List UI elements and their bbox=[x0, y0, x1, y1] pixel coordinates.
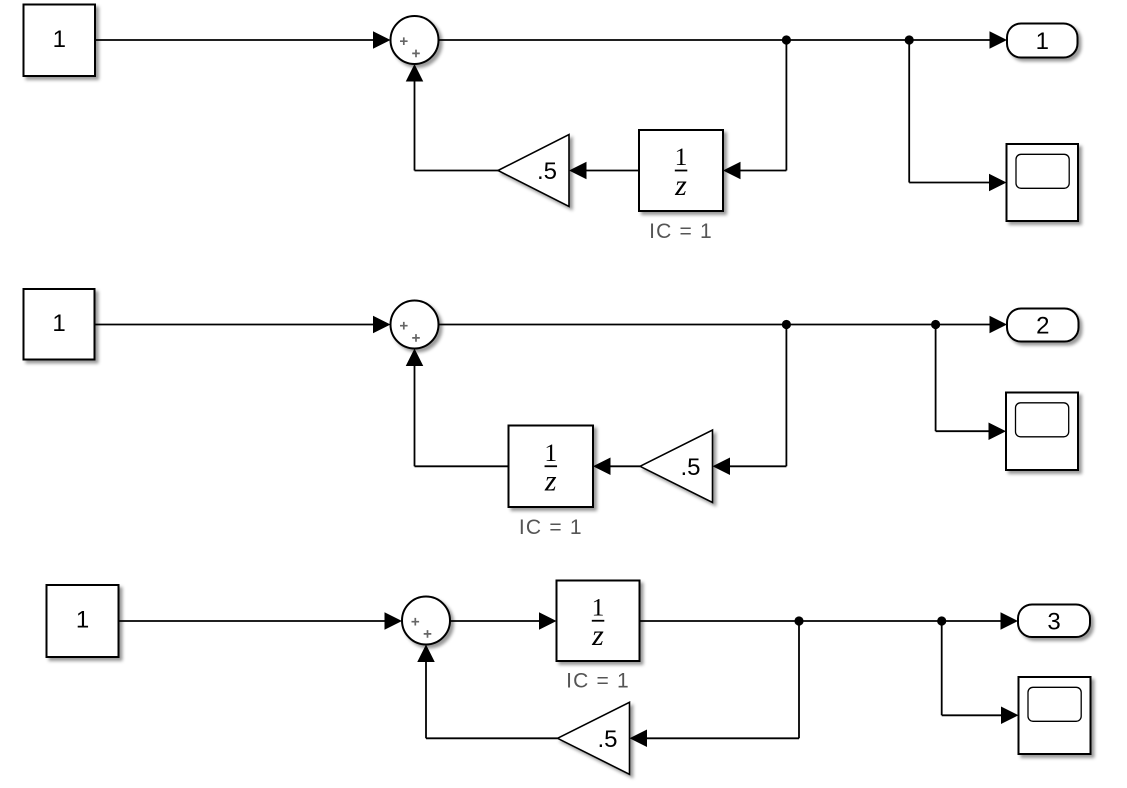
unit delay block Unit Delay1 (1/z) bbox=[639, 130, 723, 211]
svg-text:IC = 1: IC = 1 bbox=[519, 516, 583, 539]
label IC = 1 under Unit Delay1 bbox=[649, 220, 713, 243]
svg-text:1: 1 bbox=[53, 26, 66, 53]
constant block Constant1 value 1 bbox=[24, 5, 96, 77]
wire Unit Delay1 to Gain1 bbox=[569, 162, 639, 180]
svg-text:.5: .5 bbox=[597, 726, 617, 753]
wire Gain1 to Sum1 bottom input bbox=[406, 64, 498, 171]
wire J3a down to Gain3 input bbox=[630, 621, 800, 747]
svg-text:2: 2 bbox=[1036, 313, 1049, 340]
node junction J1b bbox=[905, 35, 914, 44]
svg-text:.5: .5 bbox=[680, 454, 700, 481]
node junction J2b bbox=[931, 320, 940, 329]
wire Gain2 to Unit Delay2 bbox=[593, 458, 640, 476]
svg-text:z: z bbox=[591, 619, 604, 652]
scope block Scope3 bbox=[1019, 677, 1091, 754]
svg-text:3: 3 bbox=[1047, 608, 1060, 635]
wire J2a down to Gain2 input bbox=[713, 325, 787, 476]
wire J1b down to Scope1 bbox=[909, 40, 1006, 191]
scope block Scope2 bbox=[1006, 393, 1078, 471]
label IC = 1 under Unit Delay3 bbox=[566, 669, 630, 692]
gain block Gain2 value .5 bbox=[640, 430, 713, 503]
svg-text:1: 1 bbox=[544, 438, 557, 467]
svg-text:1: 1 bbox=[675, 142, 688, 171]
node junction J3a bbox=[794, 616, 803, 625]
outport block Out2 (2) bbox=[1007, 309, 1079, 342]
constant block Constant2 value 1 bbox=[24, 289, 95, 360]
gain block Gain3 value .5 bbox=[558, 702, 630, 774]
wire J2b down to Scope2 bbox=[936, 325, 1006, 440]
unit delay block Unit Delay3 (1/z) bbox=[557, 581, 640, 662]
label IC = 1 under Unit Delay2 bbox=[519, 516, 583, 539]
wire J1a down to Unit Delay1 input bbox=[723, 40, 786, 179]
wire Constant2 to Sum2 bbox=[95, 316, 391, 334]
outport block Out3 (3) bbox=[1018, 605, 1090, 638]
svg-text:1: 1 bbox=[592, 592, 605, 621]
svg-text:.5: .5 bbox=[537, 158, 557, 185]
svg-text:IC = 1: IC = 1 bbox=[566, 669, 630, 692]
svg-text:1: 1 bbox=[52, 310, 65, 337]
unit delay block Unit Delay2 (1/z) bbox=[509, 426, 594, 508]
svg-text:IC = 1: IC = 1 bbox=[649, 220, 713, 243]
wire Unit Delay2 to Sum2 bottom input bbox=[406, 349, 509, 467]
wire J3b down to Scope3 bbox=[942, 621, 1019, 724]
sum block Sum3 (+ +) bbox=[402, 597, 450, 645]
wire Sum3 to Unit Delay3 bbox=[450, 612, 557, 630]
svg-text:1: 1 bbox=[76, 607, 89, 634]
sum block Sum1 (+ +) bbox=[391, 16, 439, 64]
svg-text:z: z bbox=[544, 465, 557, 498]
node junction J2a bbox=[782, 320, 791, 329]
node junction J1a bbox=[782, 35, 791, 44]
wire Gain3 to Sum3 bottom input bbox=[417, 645, 557, 739]
scope block Scope1 bbox=[1007, 144, 1079, 221]
sum block Sum2 (+ +) bbox=[391, 301, 439, 349]
constant block Constant3 value 1 bbox=[47, 585, 119, 657]
wire Unit Delay3 to Out3 bbox=[640, 612, 1019, 630]
outport block Out1 (1) bbox=[1007, 24, 1078, 58]
node junction J3b bbox=[937, 616, 946, 625]
wire Constant3 to Sum3 bbox=[119, 612, 403, 630]
svg-text:z: z bbox=[674, 169, 687, 202]
gain block Gain1 value .5 bbox=[498, 135, 569, 207]
svg-text:1: 1 bbox=[1036, 28, 1049, 55]
wire Sum1 to Out1 bbox=[439, 31, 1008, 49]
wire Sum2 to Out2 bbox=[439, 316, 1008, 334]
wire Constant1 to Sum1 bbox=[95, 31, 391, 49]
